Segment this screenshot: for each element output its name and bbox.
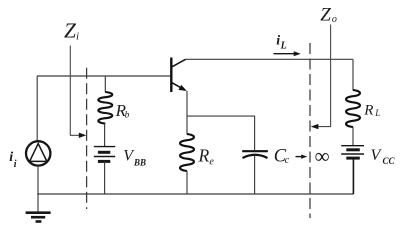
label Z_i (64, 19, 79, 43)
Zi probe arrowhead (79, 133, 87, 138)
label i_L (276, 33, 287, 51)
label R_L (363, 103, 380, 119)
label i_i (9, 150, 16, 170)
svg-text:Z: Z (320, 4, 331, 25)
label C_c (274, 147, 290, 167)
label Z_o (320, 4, 337, 25)
Zi probe line (70, 46, 84, 136)
arrow Cc to infinity (296, 155, 308, 159)
svg-text:L: L (280, 41, 287, 52)
wire VCC to rail (352, 158, 354, 194)
svg-text:BB: BB (133, 158, 146, 168)
svg-text:i: i (276, 33, 280, 48)
dashed line Zi (86, 68, 88, 209)
label R_e (198, 145, 215, 167)
current source Ii (26, 141, 50, 165)
wire Rb top lead (104, 76, 106, 92)
svg-text:R: R (198, 145, 210, 165)
resistor RL (346, 90, 360, 127)
wire left vertical (36, 76, 38, 141)
Zo probe arrowhead (311, 124, 319, 129)
resistor Re (180, 134, 194, 171)
svg-text:i: i (9, 150, 13, 165)
svg-text:R: R (363, 103, 373, 119)
wire emitter to capacitor (187, 116, 255, 150)
svg-text:i: i (76, 31, 79, 43)
svg-text:e: e (209, 156, 214, 167)
svg-text:∞: ∞ (315, 144, 330, 168)
wire RL top lead (352, 59, 354, 90)
wire collector horizontal (186, 58, 353, 60)
label V_CC (371, 147, 396, 166)
label R_b (115, 101, 130, 120)
capacitor Cc (242, 151, 268, 158)
svg-text:CC: CC (383, 156, 396, 166)
battery VCC (341, 146, 364, 158)
transistor Q1 (171, 58, 187, 93)
resistor Rb (98, 92, 112, 124)
wire VBB to rail (104, 161, 106, 194)
label V_BB (123, 148, 146, 168)
Zo probe line (313, 25, 331, 127)
wire top-left horizontal (base net) (37, 75, 171, 77)
svg-text:o: o (332, 14, 337, 25)
battery VBB (94, 147, 115, 162)
svg-text:L: L (374, 108, 380, 118)
svg-text:c: c (285, 155, 290, 166)
arrow i_L (274, 51, 301, 56)
wire bottom rail (37, 193, 353, 195)
svg-text:i: i (14, 159, 17, 170)
wire emitter vertical (186, 91, 188, 134)
wire Re to rail (186, 171, 188, 194)
wire capacitor to rail (254, 156, 256, 194)
svg-text:b: b (125, 110, 130, 120)
wire RL to battery (352, 127, 354, 146)
dashed line Zo (309, 43, 311, 218)
wire Rb to battery (104, 124, 106, 147)
ground (26, 213, 51, 222)
wire below current source (37, 166, 39, 212)
